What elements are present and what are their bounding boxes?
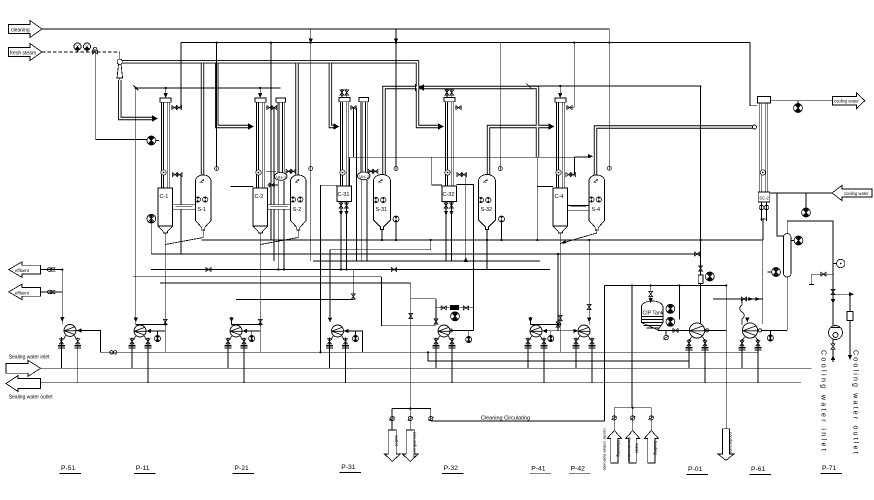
arrowhead on bottoms join [560,240,566,244]
duct arrow into C-32 [438,123,444,129]
wire cooling branch down to receiver [777,193,784,236]
valve FV2 on fresh steam [83,43,90,50]
wire condenser top to arrow [771,100,833,102]
column C-31 [337,98,352,202]
vapor duct C-4 to S-4 [568,206,589,211]
leg valves [759,205,764,210]
arrow down outlet [848,355,852,360]
wire U2 bottoms jog y276.8 to P-32 path [382,277,436,326]
spray S-2 [309,167,313,171]
svg-text:VH-1: VH-1 [276,175,287,180]
wire instrument stem S-31 [395,222,397,240]
VH-1 legs [277,180,279,269]
header y254 [151,253,700,255]
instrument right of trunk filter [705,272,714,281]
wire spray stem S-31 [395,171,397,220]
svg-text:Cooling water inlet: Cooling water inlet [820,350,827,453]
header y269.5 [151,269,550,271]
CIP tank vessel [641,301,663,330]
instrument on C-1 body left [147,214,156,223]
wire condenser legs join [761,219,766,240]
svg-text:caustic sodium hydroxide: caustic sodium hydroxide [603,428,607,471]
wire C-31 side to line157 [349,157,351,186]
duct arrow into C-4 [549,123,555,129]
flange at condenser vapor inlet [753,125,757,129]
T-bar for up arrows [614,408,651,431]
transfer line y361 [428,352,689,361]
VH-2 legs [360,180,362,261]
pump P-01 [686,323,709,383]
valve at C-1 cap right [171,106,182,110]
preheater VH-1 [274,98,287,180]
valve at C-2 cap right [266,106,277,110]
svg-text:C-4: C-4 [555,194,564,200]
svg-text:P-11: P-11 [136,465,150,472]
cleaning header line [42,28,609,30]
cleaning inlet block arrow [9,21,42,38]
orifice tick on upper duct [415,84,417,91]
feeding up arrow [644,431,658,464]
duct ejector to C-1 [120,80,152,119]
wire cleaning header end drop [608,29,610,43]
separator S-31 [374,175,391,230]
svg-text:P-71: P-71 [822,465,837,472]
receiver vessel [784,234,792,278]
duct main steam header [122,62,438,127]
stems of FV valves [77,50,79,52]
wire effluent 2 [41,291,63,293]
arrowhead into C-4 cap [558,93,562,98]
wire drop to duct bend at 216.6 [216,43,218,167]
svg-text:C-2: C-2 [255,194,264,200]
svg-text:Cleaning: Cleaning [616,440,621,457]
column C-4 [553,98,568,233]
svg-text:feeding: feeding [653,441,658,455]
condensate down arrow [725,330,727,428]
tick blind end at 136 [134,86,139,91]
svg-text:S-2: S-2 [293,207,302,213]
wire diagonal bottoms join [165,238,203,245]
vapor duct C-2 to S-2 [268,205,291,210]
wire C-4 bottom outlet [559,233,561,352]
wire duct drop continuation x537 [536,157,538,240]
valve on y269.5 left [206,268,211,272]
instrument on C-2 tubes [256,170,261,175]
valve at C-4 cap right [566,106,574,110]
level gauges S-2 [290,197,295,202]
wire upper distribution header y43 [181,42,750,44]
valve on bottoms line U5 [558,315,562,320]
svg-text:P-21: P-21 [234,465,249,472]
valve on fresh steam branch [92,47,97,54]
valve pair VH-1 to S-2 [286,169,296,173]
pump P-21 [225,317,261,383]
level gauges S-32 [478,197,483,202]
pump P-61 [739,318,762,383]
cooling water outlet line [771,101,833,113]
valve riser from y299 to y269 [352,270,354,300]
svg-text:S-32: S-32 [481,207,493,213]
pump P-51 [58,270,100,383]
valve on P-42 suction [587,304,591,309]
duct arrow into C-2 [248,123,254,129]
drops to arrows [392,409,431,430]
wire cleaning drop 310.7 to y261 [310,171,312,262]
wire U3 cap drop pair [353,108,355,158]
svg-text:effluent: effluent [15,268,30,273]
cooling water inlet (mid) [770,185,872,236]
wire cleaning thin line unit1-2 [136,87,281,89]
wire y43 to condenser top [750,43,757,106]
svg-text:P-61: P-61 [751,466,766,473]
wire trunk x700.6 [700,86,702,277]
wire ejector discharge down to C-1 shell inlet [119,78,121,119]
svg-text:Condensation: Condensation [627,437,632,462]
wire spray drop S-2 [310,43,312,167]
condenser tubes [759,103,761,192]
header bottoms y240 [202,239,763,241]
valve on P-41 drop [556,322,560,327]
cap feed valves C-31 from duct [340,89,349,98]
sealing water inlet header [41,367,812,369]
svg-text:C-31: C-31 [338,192,350,198]
header y157 [350,156,591,158]
wire P-32 suction [435,299,437,325]
spray S-32 [498,167,502,171]
level gauges S-1 [195,197,200,202]
valve pair VH-2 to S-31 [368,169,378,173]
valve C-2 body to VH-1 leg [268,183,279,187]
duct S-31 riser to upper header [384,88,538,176]
CIP instruments [666,304,675,313]
cooling water top arrow [832,93,864,109]
sealing water outlet arrow [6,376,41,392]
svg-text:C-32: C-32 [443,192,455,198]
svg-text:CIP Tank: CIP Tank [643,311,664,317]
instrument top right of receiver [794,236,803,245]
outlet branch right [833,294,850,311]
instrument right of S-32 [499,216,505,222]
wire suction to P-41 [530,317,560,324]
instrument bottom left of receiver [772,268,781,277]
pump P-11 [129,88,166,383]
valve pair right of C-1 at 174.6 [172,173,182,177]
wire suction to P-21 [232,317,261,324]
duct drop to C-31 [330,63,333,126]
arrowhead into C-1 cap [164,93,168,98]
svg-text:S-1: S-1 [198,207,207,213]
pump P-71 vacuum pump [829,326,843,340]
fresh steam block arrow [9,44,42,61]
arrow down on vacuum line [831,299,835,304]
sealing water outlet header [41,382,801,384]
wire arrow to condenser [770,192,832,194]
duct riser S-2 [295,63,298,175]
svg-text:fresh steam: fresh steam [10,51,36,57]
pump P-31 [326,318,362,383]
header y261 [313,260,540,262]
wire outlet tap drop [410,283,412,409]
separator S-4 [589,175,605,230]
valve on effluent 1 [48,268,56,272]
instrument on C-1 tubes [161,170,166,175]
svg-text:P-51: P-51 [61,465,76,472]
cap feed valves C-32 from duct [445,89,454,98]
valve pair right of C-4 [566,173,576,177]
preheater VH-2 [357,98,370,180]
wire S-31 bottom outlet [381,230,383,241]
wire S-2 bottom outlet [297,230,299,238]
wire P-42 suction from S-32 [588,240,590,317]
valve on bottoms line U2 [258,319,262,324]
wire diagonal bottoms join U5 [560,233,597,244]
wire P-32 discharge loop [448,330,474,332]
wire suction to P-11 [136,317,166,324]
valve on effluent 2 [48,290,56,294]
wire spray drop S-4 [608,43,610,167]
wire cross line to P-32 suction [411,298,436,300]
wire C-1 bottom outlet [164,233,166,352]
valve on bottoms line [163,319,167,324]
separator S-32 [479,175,496,230]
valve pair right of C-32 [457,173,467,177]
sealing water inlet arrow [6,360,41,376]
wire cleaning header drop to y43 at 396 [395,29,397,43]
arrowhead drop 310.7 [309,39,313,44]
wire P-31 suction path [330,240,431,317]
duct drop to C-2 [217,63,248,126]
valve circles up arrows [612,416,618,420]
wire fresh steam into ejector [119,52,121,59]
duct arrow into C-31 [334,123,340,129]
duct arrow into C-1 [152,115,158,121]
svg-text:S-31: S-31 [376,207,388,213]
tick blind end at 528.9 [526,84,531,89]
S-trap to P-61 [740,299,745,325]
svg-text:Cleaning Circulating: Cleaning Circulating [481,416,530,422]
valve on vacuum line [831,289,835,294]
vapor duct C-1 to S-1 [173,205,196,210]
spray S-31 [394,167,398,171]
instrument near P-61 discharge [767,335,773,341]
duct S-32 riser to C-4 [489,127,549,176]
condenser SC-2 cap [758,97,771,104]
svg-text:condensate: condensate [728,432,733,454]
wire C-1 drain down [180,175,182,254]
wire receiver bottom to P-61 discharge [758,277,787,341]
instrument on C-4 tubes [556,170,561,175]
inline filter on trunk [698,275,703,284]
wire effluent 1 [41,269,63,271]
wire drop arrow into C-1 cap [165,88,167,94]
valve under CIP outlet [663,335,669,339]
wire C-4 feed [537,186,553,188]
svg-text:cooling water: cooling water [844,191,869,196]
wire instrument stem to line 254 [150,223,152,254]
valve on trunk [699,266,703,271]
wire trunk to P-01 [700,284,702,325]
cleaning up arrow [607,431,621,464]
circumfluence block arrow down [402,430,418,461]
svg-text:VH-2: VH-2 [359,174,370,179]
separator S-1 [195,175,211,230]
svg-text:circumfluence: circumfluence [412,432,417,459]
wire drop to outlet arrows [392,408,431,410]
arrowhead drop 396 [394,39,398,44]
level gauges S-4 [589,197,594,202]
valve on outlet tap [409,313,413,318]
steam ejector nozzle [117,59,123,78]
level gauges S-31 [373,197,378,202]
valves on filter line [441,306,446,310]
wire S-1 bottom outlet [202,230,204,238]
svg-text:P-31: P-31 [341,464,356,471]
instrument on C-32 tubes [445,170,450,175]
instrument under filter [451,312,460,321]
spray S-1 [215,167,219,171]
header y276.8 [133,276,382,278]
CIP feed valve [649,291,653,296]
wire C-2 feed left [231,186,254,188]
wire P-32 recirc to C-32 [457,184,474,330]
rotameter on outlet [847,312,853,321]
column C-32 [442,98,457,202]
wire drop arrow into C-4 cap [559,86,561,94]
wire diagonal bottoms join U2 [260,238,298,245]
valve on y254 at right [695,252,700,256]
valve on y269.5 mid [391,268,396,272]
valve on flush line [741,297,746,301]
wire spray drop S-31 [395,43,397,167]
pressure gauge on vacuum line [837,259,845,267]
valve on P-32 suction [434,319,438,324]
wire C-2 bottom outlet [259,233,261,352]
fresh steam dashed line [42,51,120,53]
svg-text:P-32: P-32 [444,465,459,472]
svg-text:Sealing water outlet: Sealing water outlet [9,395,54,401]
wire P-41/P-42 discharge tee [542,330,578,332]
valve circles [389,417,395,421]
pump P-41 [525,318,548,383]
control valve at C-1 steam inlet [147,136,156,145]
wire flush line into P-61 suction [713,298,763,300]
CIP outlet to P-01 [658,329,689,331]
wire drop arrow into C-2 cap [259,88,261,94]
svg-text:P-01: P-01 [688,466,703,473]
wire valve to C-1 [156,140,159,142]
outlet block arrow down [384,430,400,461]
instrument near P-41 [548,335,554,341]
wire effluent junction to P-51 [61,270,63,292]
cooling water mid arrow [832,185,872,200]
svg-text:cooling water: cooling water [834,99,859,104]
wire spray drop S-32 [499,43,501,167]
svg-text:outlet: outlet [394,435,399,447]
valve below P-71 [831,344,835,349]
svg-text:P-41: P-41 [531,466,546,473]
product transfer line y352 [128,351,758,353]
valve at C-31 cap right [350,106,357,110]
effluent arrow 1 [9,262,41,278]
separator S-2 [291,175,307,230]
wire drop to C-4 cap valve [573,43,575,108]
wire S-4 bottom outlet [596,230,598,233]
arrowhead into C-2 cap [258,93,262,98]
instrument on C-31 tubes [340,170,345,175]
valve oo on P-51 discharge [100,351,128,354]
cooling water inlet line up arrow [831,355,835,360]
drain valves below C-31 [339,202,349,270]
wire fresh steam branch down to C-1 steam inlet [96,52,147,140]
cleaning circulating line [431,420,605,422]
svg-text:S-4: S-4 [592,207,601,213]
svg-text:SC-2: SC-2 [759,196,769,201]
svg-text:P-42: P-42 [571,466,586,473]
duct riser S-1 [201,63,204,175]
drain valves below C-32 [444,202,454,262]
duct S-4 riser to condenser [596,127,754,175]
wire y299.4 line [236,298,353,300]
instrument on mid cooling line [802,208,811,217]
instrument on condenser tubes [760,170,765,175]
effluent arrow 2 [9,284,41,300]
wire P-41 line from y254 [557,254,559,331]
drain branch left with valve [809,274,833,284]
wire C-2 to VH-1 at 171.7 [266,171,276,173]
instrument right of S-31 [393,216,399,222]
svg-text:effluent: effluent [15,290,30,295]
wire C-32 valves down to 261 [465,175,467,261]
wire C-32 feed left [432,157,442,185]
condenser legs [761,202,763,221]
column C-2 [253,98,268,233]
wire instrument stem S-32 [501,222,503,240]
svg-text:water: water [634,443,639,454]
valve FV on fresh steam [74,43,81,50]
header y283.1 [160,282,410,284]
valve at C-32 cap right [455,106,462,110]
filter sight glass (dark box) [451,305,459,309]
wire P-61 suction from bottoms header [762,240,764,324]
column C-1 [158,98,173,233]
svg-text:cleaning: cleaning [11,28,30,34]
svg-text:Sealing water inlet: Sealing water inlet [9,355,50,361]
wire cleaning circ riser [604,286,606,422]
wire C-31 feed riser [321,185,338,352]
wire receiver top to vacuum line [787,221,833,326]
wire C-4 valves up to line157 [574,157,576,174]
condensation water up arrow [626,431,640,464]
svg-text:Cooling water outlet: Cooling water outlet [852,350,859,456]
wire cleaning header drop to y43 at 310.7 [310,29,312,43]
wire U2 cap drop continuation [270,108,272,240]
wire cleaning thin line right [529,85,702,87]
wire line157 arrow into S-4 riser [575,155,591,157]
P-01 discharge loop [705,286,726,331]
wire U2 second drop [273,108,275,261]
condenser bottom box [758,192,770,202]
svg-text:C-1: C-1 [160,194,169,200]
pump P-32 [433,325,472,383]
pump P-42 [573,317,596,383]
wire drop to C-1 cap valve [180,43,182,108]
wire drop to C-2 cap valve [270,43,272,108]
instrument on top cooling line [794,104,803,113]
spray S-4 [607,166,611,170]
filter recirculation line [436,307,474,309]
duct arrow on upper header [418,84,424,90]
wire S-32 bottom outlet [486,230,488,269]
